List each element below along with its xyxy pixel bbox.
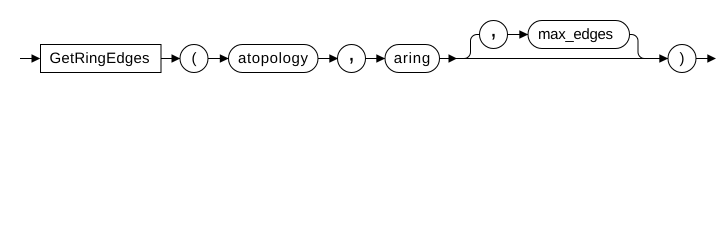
wire: aring to ) bypass main line [440, 58, 667, 60]
arrowhead into ( [172, 54, 181, 62]
svg-text:,: , [348, 40, 355, 67]
svg-text:atopology: atopology [238, 50, 309, 67]
arrowhead into GetRingEdges box [32, 54, 41, 62]
oval ) [668, 45, 696, 73]
arrowhead exit [707, 54, 716, 62]
svg-text:aring: aring [394, 50, 431, 67]
wire: entry line [20, 58, 39, 60]
oval comma2 branch [480, 21, 508, 49]
wire: comma to aring [365, 58, 384, 60]
wire: box to ( [161, 58, 179, 60]
arrowhead into ) [659, 54, 668, 62]
railroad syntax diagram: GetRingEdges ( atopology , aring [ , max_edges ] ) [0, 0, 716, 82]
wire: atopology to comma [318, 58, 337, 60]
pill max_edges [528, 21, 630, 49]
arrowhead mid-wire after aring [449, 54, 458, 62]
svg-text:,: , [490, 16, 497, 43]
arrowhead into atopology [220, 54, 229, 62]
oval ( [180, 45, 208, 73]
arrowhead into max_edges [519, 30, 528, 38]
wire: branch descend curve [630, 35, 645, 59]
wire: comma2 to max_edges [508, 34, 528, 36]
svg-text:max_edges: max_edges [538, 26, 613, 43]
wire: branch line comma2 segment [477, 34, 480, 36]
pill aring [385, 45, 440, 73]
wire: ( to atopology [208, 58, 228, 60]
arrowhead into comma [329, 54, 338, 62]
pill atopology [229, 45, 319, 73]
arrowhead into aring [376, 54, 385, 62]
svg-text:): ) [680, 50, 685, 67]
wire: ) to exit [696, 58, 715, 60]
wire: branch rise curve [464, 35, 477, 59]
box GetRingEdges [41, 45, 162, 73]
svg-text:GetRingEdges: GetRingEdges [50, 50, 150, 67]
oval comma [338, 45, 366, 73]
svg-text:(: ( [192, 50, 197, 67]
